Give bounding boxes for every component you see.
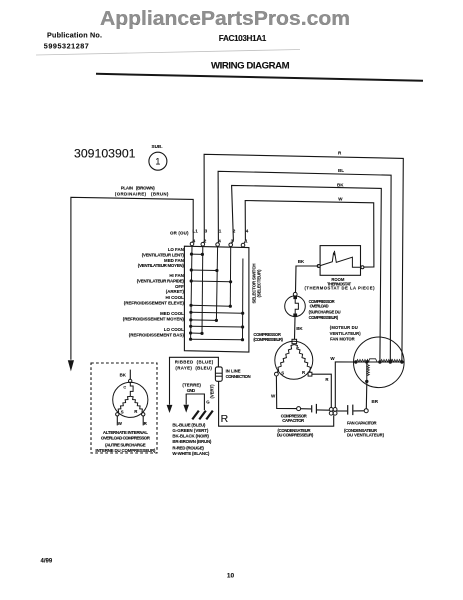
svg-text:BK: BK [296,326,303,331]
svg-text:(VENTILATEUR RAPIDE): (VENTILATEUR RAPIDE) [137,278,185,283]
labels fan motor [330,325,362,342]
selector switch terminal 1 (L1) [190,242,194,246]
svg-text:SUB.: SUB. [152,144,163,149]
compressor overload circle [285,296,306,317]
label W compressor start wire [271,394,276,399]
svg-text:(REFROIDISSEMENT MOYEN): (REFROIDISSEMENT MOYEN) [123,316,185,321]
svg-text:4: 4 [218,238,221,243]
svg-text:W-WHITE (BLANC): W-WHITE (BLANC) [172,451,210,456]
svg-text:2: 2 [233,228,236,233]
label R [302,370,306,375]
compressor start winding [277,345,294,373]
svg-text:G: G [206,399,210,404]
svg-text:2: 2 [204,238,207,243]
wire: plain brown cord lead to switch L1 [71,197,193,359]
svg-text:BR-BROWN (BRUN): BR-BROWN (BRUN) [172,439,212,444]
wire capacitor link [301,408,312,410]
switch row LO COOL contact [189,331,204,335]
svg-text:COMPRESSEUR): COMPRESSEUR) [309,315,339,320]
arrow: green cord lead to plug [183,405,189,413]
alternate compressor internal overload jog [130,383,133,397]
label BR [372,399,379,404]
label PLAIN (BROWN) cord lead [115,186,169,197]
svg-text:R: R [134,409,138,414]
compressor terminal R [308,372,312,376]
svg-text:(REFROIDISSEMENT ELEVE): (REFROIDISSEMENT ELEVE) [124,300,185,305]
svg-text:OVERLOAD: OVERLOAD [310,304,329,309]
fan motor auxiliary winding [367,362,370,381]
svg-text:W: W [330,356,335,361]
label BL on wire B [338,168,344,173]
switch column wire from terminal 3 [216,246,217,320]
svg-text:(THERMOSTAT DE LA PIECE): (THERMOSTAT DE LA PIECE) [305,286,376,291]
label W alternate lead [118,421,123,426]
junction block (4 circles) [329,408,337,416]
label (VERT) vertical [209,384,214,399]
faint header scan line [36,50,300,56]
fan motor circle [354,337,405,388]
svg-text:WIRING DIAGRAM: WIRING DIAGRAM [211,60,290,71]
arrow: blue cord lead to plug [167,405,173,413]
labels ground (TERRE) GND [182,383,201,394]
wire C (BK) switch terminal 4 to fan motor [232,185,382,362]
svg-text:RIBBED (BLUE): RIBBED (BLUE) [175,360,214,365]
labels FAN CAPACITOR [344,420,385,437]
fan capacitor plates [348,405,353,416]
compressor capacitor plates [312,404,317,414]
label BK on wire C [337,182,344,187]
wire R compressor run to junction [312,374,331,407]
svg-text:CAPACITOR: CAPACITOR [282,418,304,423]
label W on wire D [338,196,343,201]
svg-text:3: 3 [205,228,208,233]
label C alternate compressor [123,385,126,389]
wire capacitor to junction [317,409,330,411]
header rule [96,74,423,81]
svg-text:OVERLOAD COMPRESSOR: OVERLOAD COMPRESSOR [101,436,151,441]
svg-text:(VERT): (VERT) [209,384,214,399]
svg-text:Publication No.: Publication No. [47,31,102,40]
svg-text:R: R [221,413,229,425]
svg-text:W: W [118,421,123,426]
svg-text:W: W [338,196,343,201]
svg-text:INTERNE DU COMPRESSEUR): INTERNE DU COMPRESSEUR) [95,448,156,453]
wire ribbed blue cord to in-line connection [170,357,219,367]
thermostat switch arm [320,251,360,267]
svg-text:BL: BL [338,168,344,173]
compressor terminal S [275,372,279,376]
labels COMPRESSOR CAPACITOR [277,414,314,438]
alternate compressor terminal S [116,413,119,416]
switch row MED FAN contact [190,268,219,272]
svg-text:IN LINE: IN LINE [226,369,241,374]
labels IN LINE CONNECTION [226,369,251,379]
footer page number 10 [227,573,235,580]
svg-text:DU COMPRESSEUR): DU COMPRESSEUR) [277,432,314,437]
fan capacitor terminal circle [364,409,368,413]
wire junction to fan capacitor [337,410,347,412]
switch row bottom contact c1-c5 [189,338,244,342]
sub revision label [152,144,163,149]
svg-text:1: 1 [245,238,248,243]
wire BR fan motor to capacitor [365,383,368,409]
wire BK lead alternate compressor [129,370,131,380]
label R alternate [134,409,138,414]
switch row contact c1-c5 [189,325,244,329]
in-line connection symbol [215,367,222,381]
switch row MED COOL contact [189,318,218,322]
label BK at thermostat [298,259,305,264]
svg-text:(RAYE) (BLEU): (RAYE) (BLEU) [175,365,212,370]
svg-text:R: R [338,151,342,156]
wire blue cord lead down [169,357,171,404]
alternate compressor run winding [130,396,143,412]
model number FAC103H1A1 [219,34,267,43]
selector switch box [184,246,249,352]
svg-text:CONNECTION: CONNECTION [226,374,251,379]
svg-text:BK: BK [337,182,344,187]
compressor circle [275,341,313,379]
publication number block [44,31,102,51]
svg-text:BK-BLACK (NOIR): BK-BLACK (NOIR) [172,434,209,439]
svg-text:4/99: 4/99 [41,559,53,565]
labels COMPRESSOR OVERLOAD [309,299,341,320]
selector switch terminal 2 [201,242,205,246]
compressor capacitor terminal circle [297,407,301,411]
svg-text:FAC103H1A1: FAC103H1A1 [219,34,267,43]
svg-text:VENTILATEUR): VENTILATEUR) [330,331,362,336]
svg-text:AppliancePartsPros.com: AppliancePartsPros.com [100,7,350,30]
labels ROOM THERMOSTAT [305,277,376,290]
switch row HI FAN contact [190,279,233,283]
label SELECTOR SWITCH (vertical) [252,264,262,304]
switch column wire from terminal 4 [229,247,231,307]
alternate compressor lead R [142,416,144,425]
svg-text:HI COOL: HI COOL [166,295,185,300]
svg-text:5995321287: 5995321287 [44,42,89,51]
svg-text:(VENTILATEUR LENT): (VENTILATEUR LENT) [142,252,185,257]
svg-text:1: 1 [155,157,160,167]
fan motor winding tap dots [354,360,404,363]
label R red wire [221,413,229,425]
svg-text:10: 10 [227,573,235,580]
label R compressor run wire [325,377,329,382]
alternate compressor dashed box [91,363,157,453]
labels alternate internal overload compressor [95,430,156,453]
labels COMPRESSOR (COMPRESSEUR) [253,332,283,342]
svg-text:3: 3 [231,238,234,243]
switch column wire from terminal 2 [201,246,204,333]
label C inside compressor [296,346,299,350]
fan motor main winding [354,359,405,362]
svg-text:(ORDINAIRE) (BRUN): (ORDINAIRE) (BRUN) [115,191,169,196]
svg-text:(MOTEUR DU: (MOTEUR DU [330,325,358,330]
alternate compressor top terminal [129,379,132,382]
svg-text:BK: BK [120,373,127,378]
alternate compressor circle [113,382,148,417]
label RIBBED (BLUE) cord lead [175,360,214,371]
svg-text:BK: BK [298,259,305,264]
arrow: plain cord lead to plug [68,360,74,371]
svg-text:DU VENTILATEUR): DU VENTILATEUR) [347,432,385,437]
svg-text:W: W [271,394,276,399]
switch row LO FAN contact [190,253,204,256]
thermostat right terminal [361,266,364,269]
svg-text:S: S [121,409,124,414]
label G [206,399,210,404]
label BK alternate compressor [120,373,127,378]
wire R in-line connection to junction [219,381,334,426]
overload bottom contact dot [293,314,297,318]
svg-text:4: 4 [193,238,196,243]
svg-text:C: C [123,385,126,389]
svg-text:309103901: 309103901 [74,148,136,161]
fan motor bottom tap dot [365,380,368,383]
svg-text:G-GREEN (VERT): G-GREEN (VERT) [172,428,209,433]
compressor overload top terminal [293,292,297,296]
svg-text:PLAIN (BROWN): PLAIN (BROWN) [121,186,156,191]
svg-text:(VENTILATEUR MOYEN): (VENTILATEUR MOYEN) [138,263,185,268]
alternate compressor terminal R [142,413,145,416]
svg-text:GND: GND [187,388,196,393]
label W at fan motor [330,356,335,361]
switch row HI COOL contact [189,304,232,308]
wire D (W) switch terminal 5 to room thermostat [244,201,374,268]
svg-text:(AUTRE SURCHARGE: (AUTRE SURCHARGE [105,443,146,448]
svg-text:(REFROIDISSEMENT BAS): (REFROIDISSEMENT BAS) [129,332,185,337]
watermark AppliancePartsPros.com [100,7,350,30]
svg-text:(SELECTEUR): (SELECTEUR) [257,269,262,298]
svg-text:R: R [302,370,306,375]
part number 309103901 [74,148,136,161]
switch row contact to terminal 5 [189,311,244,315]
svg-text:(ARRET): (ARRET) [166,289,185,294]
thermostat left terminal [317,265,320,268]
wire fan capacitor to BR terminal [353,410,364,412]
selector switch terminal 4 [229,243,233,247]
svg-text:4: 4 [246,228,249,233]
wire A (R) switch terminal 2 to fan motor [204,154,404,362]
wire green ground lead [186,394,204,410]
svg-text:(COMPRESSEUR): (COMPRESSEUR) [253,337,283,342]
svg-text:ALTERNATE INTERNAL: ALTERNATE INTERNAL [103,430,148,435]
wire W fan motor to junction [335,362,356,408]
label R on wire A [338,151,342,156]
label BK overload-compressor wire [296,326,303,331]
wire color legend [172,422,212,456]
svg-text:1: 1 [219,228,222,233]
switch column wire from terminal 1 [191,246,192,339]
title WIRING DIAGRAM [211,60,290,71]
svg-text:R: R [144,421,148,426]
switch function labels [123,247,185,337]
terminal number labels at circles [193,238,248,243]
wire B (BL) switch terminal 3 to fan motor [218,171,391,362]
svg-text:R-RED (ROUGE): R-RED (ROUGE) [172,445,204,450]
svg-text:L1: L1 [192,228,198,233]
label S [281,370,284,375]
wire BK thermostat to overload [296,266,319,292]
label S alternate [121,409,124,414]
chassis ground symbol [192,411,213,420]
label R alternate lead [144,421,148,426]
overload top contact dot [293,296,297,299]
svg-text:R: R [325,377,329,382]
svg-text:BL-BLUE (BLEU): BL-BLUE (BLEU) [172,422,206,427]
selector switch terminal 5 [241,243,245,247]
wire number labels above terminals [192,228,248,233]
room thermostat box [320,246,360,276]
footer date 4/99 [41,559,53,565]
svg-text:S: S [281,370,284,375]
wire BK overload to compressor [294,317,297,339]
alternate compressor start winding [118,396,131,412]
svg-text:FAN MOTOR: FAN MOTOR [330,337,355,342]
svg-text:(SURCHARGE DU: (SURCHARGE DU [309,310,341,315]
alternate compressor lead W [116,416,118,425]
selector switch terminal 3 [216,243,220,247]
svg-text:FAN CAPACITOR: FAN CAPACITOR [347,420,377,425]
compressor run winding [294,345,310,373]
overload element jog [295,299,298,314]
svg-text:BR: BR [372,399,379,404]
svg-text:(TERRE): (TERRE) [182,383,201,388]
wire ground cord lead down [185,394,187,405]
switch column wire 5 [242,259,244,340]
svg-text:OR (OU): OR (OU) [170,230,189,235]
wire W compressor start to capacitor [276,376,296,409]
sub revision circle 1 [149,152,167,170]
label OR (OU) [170,230,189,235]
compressor top terminal C [292,339,297,343]
